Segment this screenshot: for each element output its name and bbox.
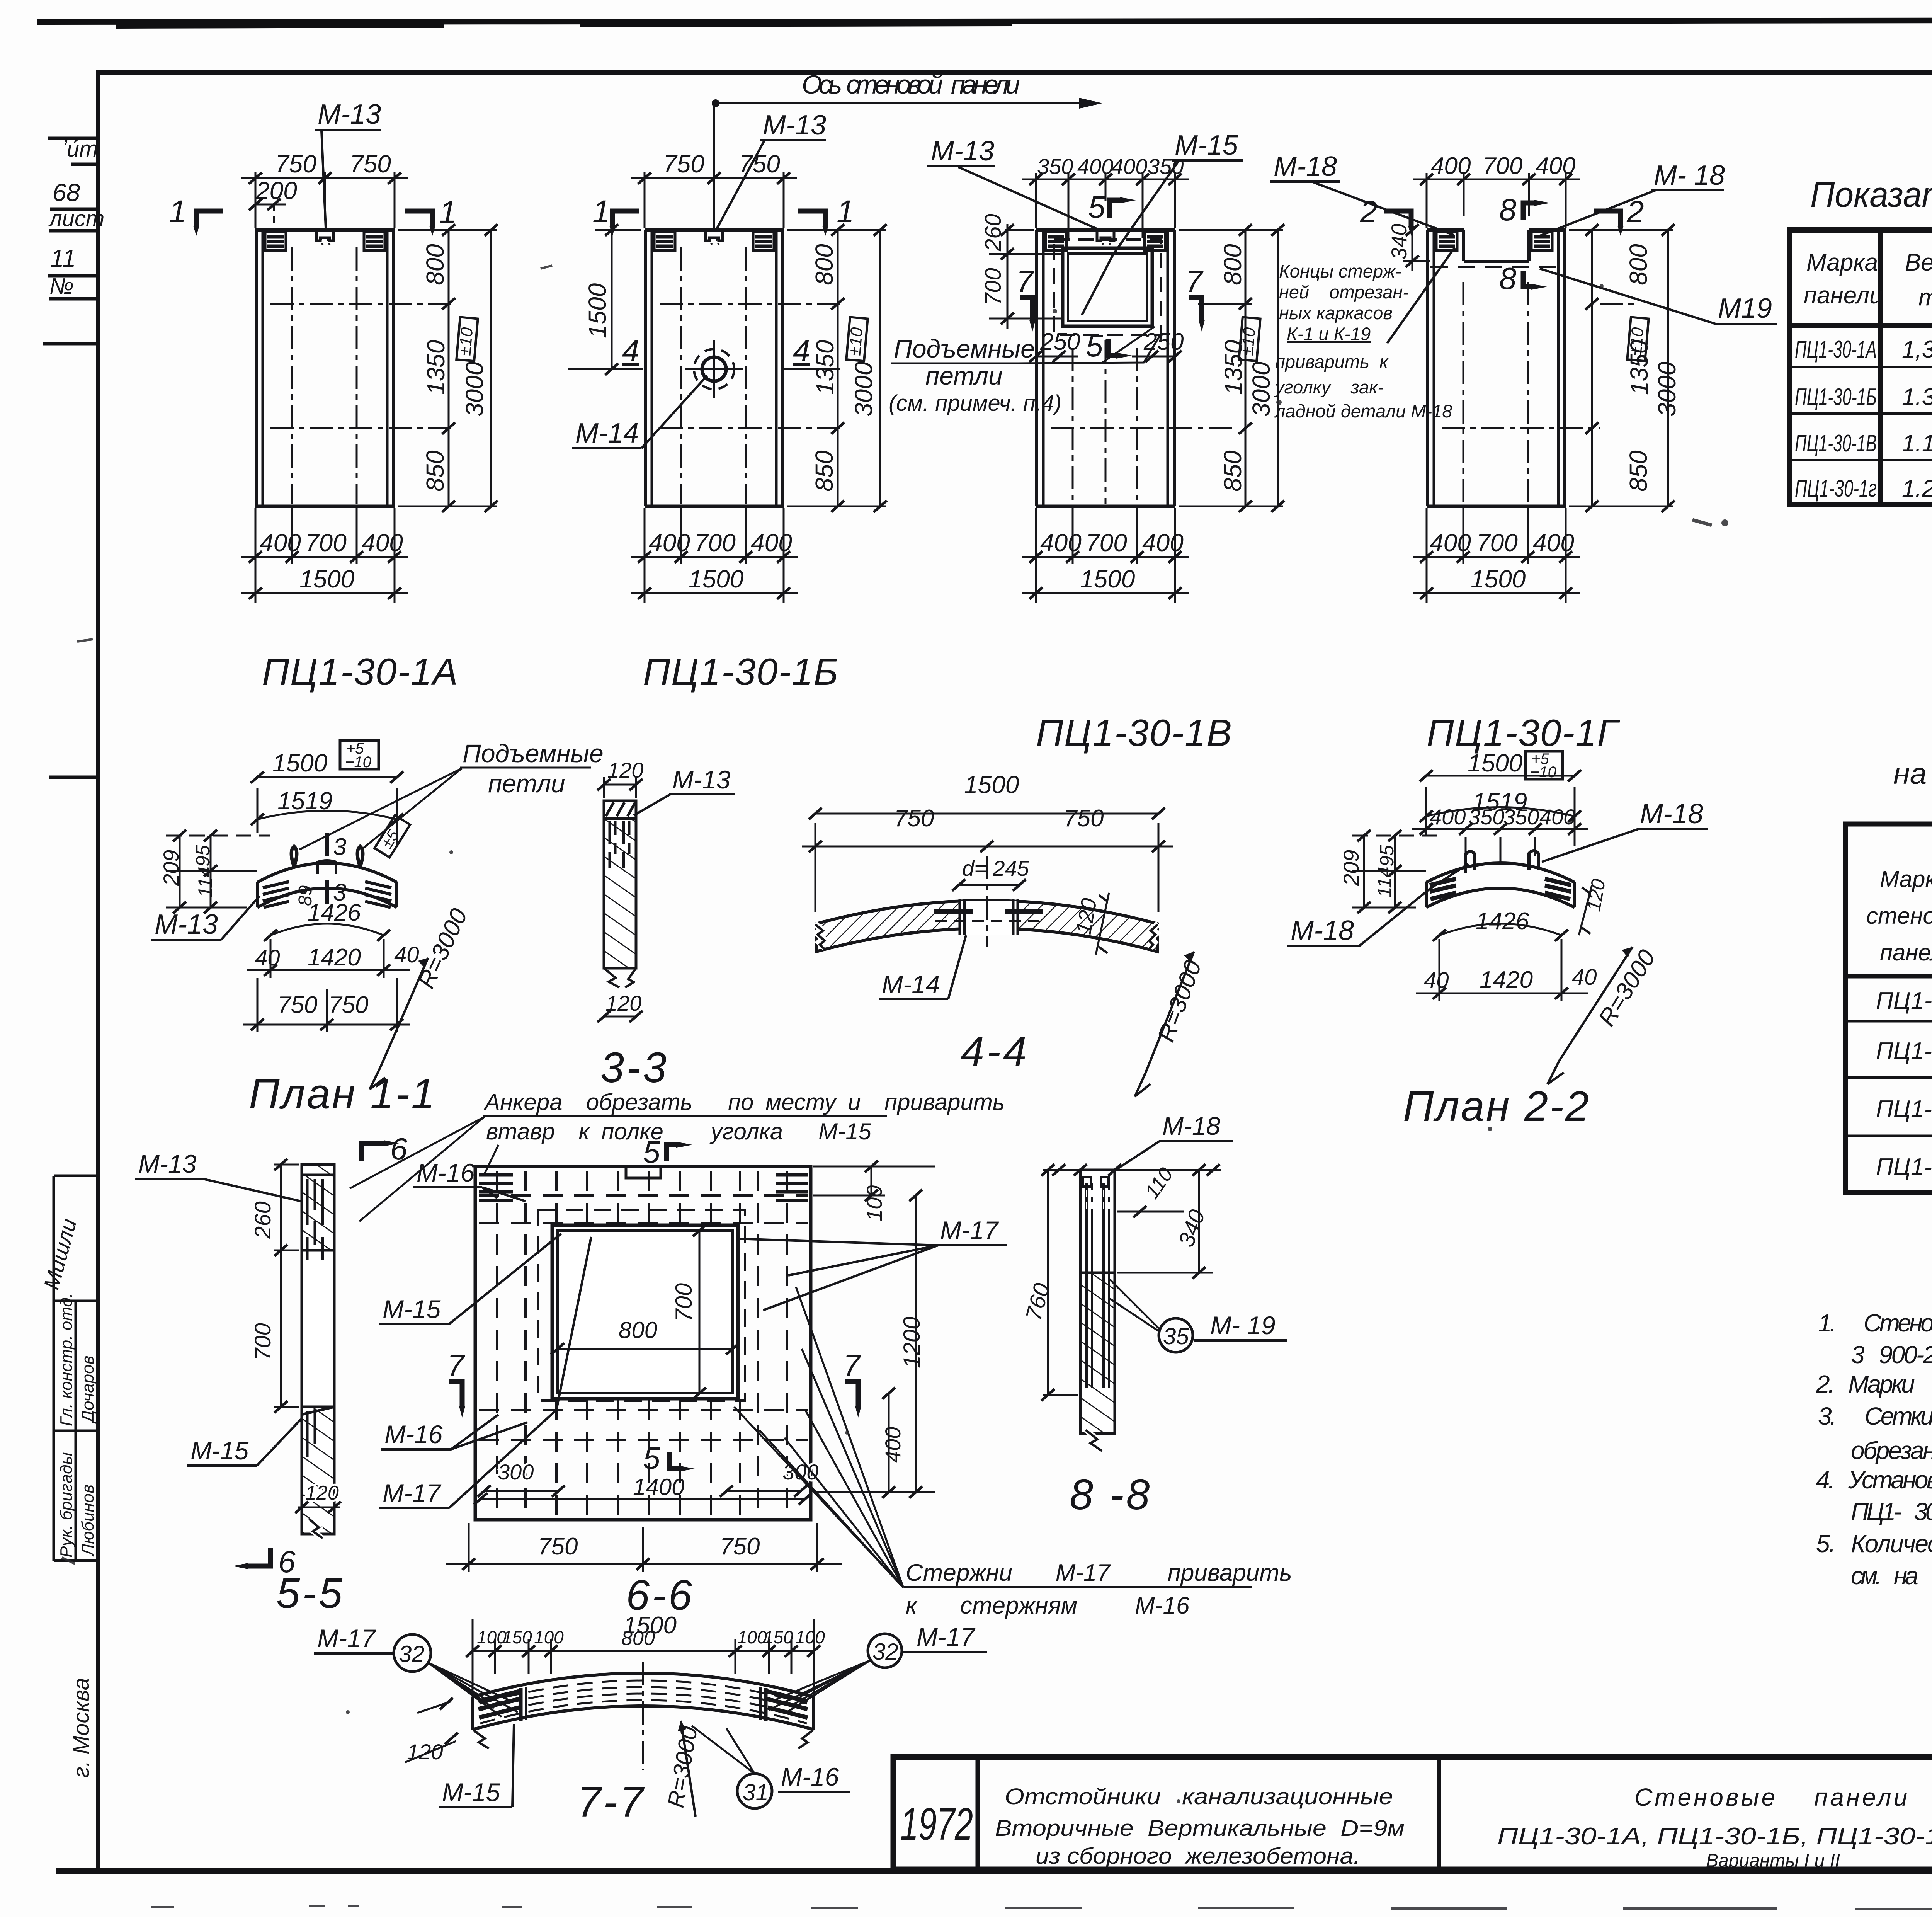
svg-text:750: 750 [1064,805,1104,832]
svg-text:400: 400 [881,1427,905,1463]
svg-text:250: 250 [1040,329,1080,355]
svg-text:209: 209 [159,850,183,886]
Plan 2-2 drawing [1287,749,1708,1130]
svg-text:М-18: М-18 [1640,798,1703,829]
svg-text:уголку зак-: уголку зак- [1274,377,1384,397]
svg-text:ПЦ1-30-1Б: ПЦ1-30-1Б [643,650,839,693]
svg-text:М-14: М-14 [882,970,940,999]
svg-text:700: 700 [250,1323,276,1360]
svg-text:32: 32 [872,1639,898,1665]
М-14 hole [702,357,726,381]
bottom dims [1022,508,1189,603]
svg-text:850: 850 [1219,450,1247,492]
svg-text:М-13: М-13 [155,909,218,940]
table 1: Показатели на одну панель [1789,175,1932,504]
svg-text:95: 95 [192,845,214,867]
svg-text:±10: ±10 [845,326,866,356]
svg-text:700: 700 [305,529,347,557]
R=3000 arrow [370,958,428,1089]
svg-text:120: 120 [305,1482,339,1504]
svg-text:М-16: М-16 [417,1158,475,1187]
svg-text:31: 31 [743,1779,769,1805]
svg-text:35: 35 [1163,1323,1189,1349]
svg-text:5-5: 5-5 [276,1570,345,1617]
svg-text:1350: 1350 [811,340,839,395]
1500 vertical dim [611,230,613,369]
svg-text:40: 40 [1572,965,1597,990]
svg-text:350: 350 [1468,805,1504,829]
svg-text:100: 100 [534,1627,564,1647]
svg-text:т: т [1918,284,1932,311]
svg-text:1972: 1972 [900,1799,973,1850]
dim 340 [1198,1170,1200,1273]
svg-text:М-15: М-15 [442,1778,500,1806]
dashed rebar verticals [497,1171,787,1517]
curved band [473,1673,814,1697]
svg-text:(см. примеч. п.4): (см. примеч. п.4) [889,391,1061,416]
svg-text:№: № [49,274,74,299]
svg-text:400: 400 [260,529,301,557]
svg-text:750: 750 [328,992,368,1018]
right dim chain [1569,230,1673,506]
svg-text:−10: −10 [345,754,371,771]
svg-text:750: 750 [894,805,934,832]
М-18 anchor combs at ends [1430,879,1571,899]
dim 1400 [481,1498,805,1500]
dims 1426 / 1420 / 40 [1439,924,1561,935]
svg-text:700: 700 [671,1283,697,1322]
svg-text:петли: петли [925,361,1003,390]
dims 260 / 700 [274,1165,299,1407]
svg-text:1420: 1420 [1480,967,1533,993]
svg-text:5. Количество стеновых пан: 5. Количество стеновых панелей, подлежащ… [1816,1530,1932,1558]
arc band [257,863,397,882]
svg-text:120: 120 [605,991,641,1015]
svg-text:−10: −10 [1530,764,1556,781]
svg-text:3000: 3000 [461,361,488,417]
rise dims [1352,836,1437,907]
svg-text:800: 800 [1624,244,1652,285]
svg-text:800: 800 [810,244,838,285]
dim 1420 + 40 [247,969,410,971]
lifting loops [291,846,297,867]
centre hole [960,901,1018,935]
bottom dims 400/700/400 and 1500 [241,508,408,603]
svg-text:400: 400 [751,529,792,557]
svg-text:750: 750 [720,1533,760,1560]
dim 400/700/400 top [1413,173,1580,228]
svg-text:3-3: 3-3 [600,1044,669,1091]
svg-text:1.25: 1.25 [1902,475,1932,502]
svg-text:6: 6 [390,1132,408,1166]
svg-text:ПЦ1-30-1Г: ПЦ1-30-1Г [1427,712,1621,754]
svg-text:Марка: Марка [1880,866,1932,892]
svg-text:700: 700 [1483,153,1522,179]
svg-text:1. Стеновые панели принят: 1. Стеновые панели приняты марки ПЦ1- 30… [1818,1309,1932,1337]
svg-text:±10: ±10 [455,326,476,356]
end plates [478,1691,808,1718]
svg-text:см. на листах АС -3, 4, 5.: см. на листах АС -3, 4, 5. [1851,1562,1932,1590]
svg-text:7-7: 7-7 [577,1778,646,1826]
center plate mark [318,860,336,874]
svg-text:панели: панели [1804,282,1883,309]
svg-text:К-1 и К-19: К-1 и К-19 [1287,323,1371,344]
svg-text:400: 400 [1430,529,1471,557]
note: Анкера обрезать [350,1089,1005,1221]
right dim chain 800/1350/850 [398,230,497,506]
note: Стержни М-17 приварить [734,1287,1292,1619]
svg-text:700: 700 [1086,529,1127,557]
svg-text:Отстойники канализационные: Отстойники канализационные [1005,1784,1393,1809]
svg-text:ПЦ1-30-1А, ПЦ1-30-1Б, ПЦ1-30-1: ПЦ1-30-1А, ПЦ1-30-1Б, ПЦ1-30-1В, ПЦ1-30-… [1497,1823,1932,1850]
right dim chain [1179,230,1283,506]
section mark 1 left [196,211,223,226]
svg-text:400: 400 [1142,529,1184,557]
tol box ±5 [374,815,410,857]
svg-text:4-4: 4-4 [961,1028,1029,1075]
svg-text:Подъемные: Подъемные [894,334,1035,363]
svg-text:750: 750 [277,992,317,1018]
svg-text:5: 5 [1086,329,1103,363]
svg-text:400: 400 [1431,153,1471,179]
svg-text:М19: М19 [1718,293,1772,324]
svg-text:М-16: М-16 [384,1420,443,1449]
svg-text:М-13: М-13 [138,1149,197,1178]
svg-text:1426: 1426 [308,899,361,926]
section 6-6 [379,1135,1007,1619]
svg-text:1500: 1500 [583,283,611,338]
svg-text:4. Установку верхних подъе: 4. Установку верхних подъемных петель в … [1816,1466,1932,1494]
svg-text:Дочаров: Дочаров [78,1355,97,1424]
svg-text:7: 7 [1185,264,1204,298]
scan bottom dashed edge [151,1906,1932,1909]
svg-text:М- 19: М- 19 [1210,1311,1276,1340]
svg-text:ных каркасов: ных каркасов [1279,303,1393,323]
left rise dims 95/114/209 [166,836,270,907]
svg-text:1: 1 [592,194,610,229]
svg-text:260: 260 [250,1201,276,1239]
dim 250 left/right of window [1036,356,1078,358]
top dims [473,1650,814,1652]
svg-text:М-15: М-15 [1175,130,1238,161]
left margin stamp lines [43,138,96,777]
svg-text:приварить к: приварить к [1275,351,1389,372]
svg-text:150: 150 [502,1627,532,1647]
svg-text:114: 114 [194,867,216,897]
svg-text:ладной детали М-18: ладной детали М-18 [1274,401,1452,421]
svg-text:340: 340 [1387,224,1411,260]
svg-text:1426: 1426 [1476,908,1529,935]
arc band [1426,863,1575,882]
svg-text:М- 18: М- 18 [1654,160,1725,191]
35 circle + М-19 [1159,1318,1193,1352]
window dims [558,1348,733,1350]
svg-text:750: 750 [538,1533,578,1560]
notes: Примечания [1816,1246,1932,1590]
table 3: Выборка стали [1845,720,1932,1193]
dim 750+750 top [241,172,408,228]
svg-text:400: 400 [1077,154,1113,179]
svg-text:1500: 1500 [964,771,1019,798]
svg-text:ПЦ1-30 -1А: ПЦ1-30 -1А [1876,987,1932,1014]
svg-text:3: 3 [333,834,346,860]
svg-text:8: 8 [1499,261,1517,296]
dim 1500 with tol box [257,776,397,778]
svg-text:Любинов: Любинов [78,1485,97,1557]
svg-text:Вторичные Вертикальные D=9м: Вторичные Вертикальные D=9м [995,1816,1405,1841]
svg-text:68: 68 [53,179,80,206]
section mark 2 left [1384,211,1411,226]
svg-text:Ось стеновой панели: Ось стеновой панели [802,70,1020,99]
svg-text:ПЦ1-30-1А: ПЦ1-30-1А [262,650,459,693]
dim 750+750 top [631,172,797,228]
svg-text:1500: 1500 [689,565,744,593]
dim 200 [255,204,286,206]
section 6 marks [361,1143,384,1161]
left vertical dims 260/700 [989,224,1063,329]
svg-text:d= 245: d= 245 [962,856,1029,880]
svg-text:ПЦ1-30-1Б: ПЦ1-30-1Б [1795,384,1877,410]
svg-text:300: 300 [498,1460,534,1484]
svg-text:Анкера обрезать по месту и: Анкера обрезать по месту и приварить [483,1089,1005,1115]
svg-text:Стержни М-17 приварить: Стержни М-17 приварить [906,1559,1292,1586]
R=3000 [1548,947,1633,1084]
svg-text:М-16: М-16 [781,1762,839,1791]
svg-text:М-15: М-15 [190,1436,249,1465]
svg-text:лист: лист [48,206,104,231]
frame bottom border [56,1868,1932,1874]
section mark 2 right [1594,211,1621,226]
svg-text:3000: 3000 [850,361,878,417]
svg-text:800: 800 [619,1317,657,1343]
svg-text:ней отрезан-: ней отрезан- [1279,282,1409,302]
dim 350/400/400/350 top [1022,173,1189,238]
svg-text:М-18: М-18 [1291,915,1354,946]
svg-text:План 2-2: План 2-2 [1403,1083,1590,1130]
svg-text:1500: 1500 [272,749,328,777]
svg-text:М-17: М-17 [940,1216,999,1245]
svg-text:7: 7 [447,1348,465,1382]
120 thickness [1579,885,1592,935]
svg-text:М-13: М-13 [672,765,731,794]
svg-text:250: 250 [1143,329,1184,355]
dims 300 bottom [484,1490,558,1492]
svg-text:850: 850 [421,450,449,492]
dim 1519 curved [257,811,397,820]
R=3000 [681,1721,696,1817]
section 4-4 [802,771,1207,1096]
svg-text:700: 700 [694,529,736,557]
svg-text:400: 400 [1040,529,1082,557]
panel ПЦ1-30-1А elevation [169,99,498,693]
svg-text:1420: 1420 [308,944,361,971]
section 5-5 strip [135,1132,408,1617]
bottom dims [1413,508,1580,603]
top dim [1043,1169,1221,1171]
svg-text:1500: 1500 [1468,749,1523,777]
svg-text:3 900-2 выпуск 3 с добав: 3 900-2 выпуск 3 с добавлением закладных… [1851,1341,1932,1369]
svg-text:750: 750 [350,150,391,178]
svg-text:750: 750 [275,150,316,178]
svg-text:800: 800 [421,244,449,285]
svg-text:1: 1 [837,194,854,229]
svg-text:260: 260 [981,214,1006,252]
svg-text:400: 400 [362,529,403,557]
svg-text:1,33: 1,33 [1902,336,1932,363]
svg-text:400: 400 [1111,154,1147,179]
svg-text:Рук. бригады: Рук. бригады [57,1452,76,1558]
section 7-7 [314,1612,987,1826]
svg-text:1519: 1519 [277,787,332,815]
dim 750/750 bottom [243,1024,410,1026]
svg-text:1.15: 1.15 [1902,430,1932,457]
svg-text:М-18: М-18 [1274,151,1337,182]
svg-text:±10: ±10 [1238,326,1259,356]
svg-text:400: 400 [1536,153,1575,179]
lifting lugs [1466,851,1475,873]
svg-text:350: 350 [1503,805,1539,829]
svg-text:40: 40 [255,945,280,970]
svg-text:к стержням М-16: к стержням М-16 [906,1592,1190,1619]
svg-text:втавр к полке уголка М-1: втавр к полке уголка М-15 [486,1119,871,1144]
svg-text:7: 7 [1016,264,1034,298]
svg-text:800: 800 [621,1627,655,1650]
dim 750/750 [446,1563,842,1565]
svg-text:1350: 1350 [422,340,450,395]
svg-text:М-13: М-13 [763,110,826,141]
svg-text:7: 7 [843,1348,861,1382]
svg-text:ПЦ1-30-1В: ПЦ1-30-1В [1795,430,1877,457]
svg-text:из сборного железобетона.: из сборного железобетона. [1036,1844,1360,1869]
section mark 1 right [405,211,432,226]
svg-text:100: 100 [862,1185,886,1221]
note text about К-1 [1274,261,1452,421]
svg-text:850: 850 [810,450,838,492]
svg-text:1200: 1200 [899,1317,925,1368]
32 circles with fans [394,1634,431,1672]
svg-text:обрезанных стержней привар: обрезанных стержней приварить к закладны… [1851,1437,1932,1464]
svg-text:100: 100 [795,1627,825,1647]
svg-text:100: 100 [737,1627,767,1647]
bottom dims [631,508,798,603]
section mark 1 left [612,211,639,226]
svg-text:32: 32 [399,1641,425,1667]
frame left border [96,70,100,1871]
svg-text:ПЦ1- 30-1В производить по: ПЦ1- 30-1В производить по данному чертеж… [1851,1498,1932,1525]
svg-text:М-13: М-13 [931,136,994,167]
end anchor combs [263,882,391,907]
svg-text:1500: 1500 [299,565,355,593]
right dim chain [787,230,886,506]
svg-text:700: 700 [1476,529,1518,557]
svg-text:1: 1 [169,194,187,229]
svg-text:120: 120 [607,758,643,782]
svg-text:г. Москва: г. Москва [69,1678,94,1778]
svg-text:40: 40 [394,942,419,967]
title block [893,1757,1932,1911]
panel ПЦ1-30-1Г elevation [1270,151,1777,754]
svg-text:4: 4 [793,334,810,368]
section 3-3 [597,758,735,1091]
svg-text:400: 400 [1539,805,1575,829]
svg-text:11: 11 [50,244,76,272]
svg-text:петли: петли [488,769,565,798]
dim 1500 [815,813,1158,815]
section 4 marks [587,368,643,370]
svg-text:ПЦ1-30-1А: ПЦ1-30-1А [1795,336,1877,363]
svg-text:Марка: Марка [1806,249,1878,276]
svg-text:8 -8: 8 -8 [1070,1471,1152,1519]
svg-text:2. Марки закладных элементов: 2. Марки закладных элементов см. листы А… [1816,1370,1932,1398]
section 8-8 [1021,1112,1287,1519]
svg-text:Стеновые панели: Стеновые панели [1634,1783,1910,1811]
section mark 1 right [798,211,825,226]
dim 340 [1412,228,1413,271]
dims right [871,1166,872,1195]
dim 750/750 [802,846,1173,848]
scan top edge band [37,17,1932,25]
svg-text:1500: 1500 [1471,565,1526,593]
svg-text:Гл. констр. отд.: Гл. констр. отд. [57,1293,76,1426]
svg-text:ПЦ1-30 -1В: ПЦ1-30 -1В [1876,1096,1932,1122]
120 thickness dim [1096,893,1109,955]
svg-text:5: 5 [1088,190,1105,224]
svg-text:ʼи́т: ʼи́т [62,136,98,162]
svg-text:ПЦ1-30-1В: ПЦ1-30-1В [1036,712,1233,754]
svg-text:700: 700 [981,268,1006,305]
svg-text:М-17: М-17 [317,1624,376,1653]
svg-text:1500: 1500 [1080,565,1135,593]
svg-text:Вес: Вес [1905,249,1932,276]
dim 110 [1117,1211,1184,1213]
svg-text:150: 150 [764,1627,793,1647]
svg-text:ПЦ1-30-1г: ПЦ1-30-1г [1795,475,1877,502]
31 circle + М-16 [737,1774,772,1808]
dim 120 top [604,784,636,786]
svg-text:ПЦ1-30 -1Б: ПЦ1-30 -1Б [1876,1038,1932,1064]
svg-text:3000: 3000 [1247,361,1275,417]
svg-text:5: 5 [643,1441,660,1475]
svg-text:М-18: М-18 [1162,1112,1221,1140]
svg-text:Варианты I и II: Варианты I и II [1706,1851,1840,1871]
svg-text:750: 750 [739,150,780,178]
svg-text:850: 850 [1624,450,1652,492]
R=3000 [1135,952,1194,1096]
svg-text:400: 400 [1430,805,1466,829]
Plan 1-1 drawing [151,739,604,1118]
svg-text:200: 200 [255,177,297,204]
frame top border [97,70,1932,75]
dim 400/350/350/400 [1412,828,1588,830]
dim 760 [1047,1170,1049,1395]
panel ПЦ1-30-1В elevation [889,130,1284,754]
svg-text:Показатели на одну панель: Показатели на одну панель [1810,175,1932,215]
svg-text:1.33: 1.33 [1902,384,1932,410]
svg-text:План 1-1: План 1-1 [249,1070,436,1118]
svg-text:400: 400 [1533,529,1574,557]
svg-text:±10: ±10 [1626,326,1647,356]
panel ПЦ1-30-1Б elevation [568,70,1102,693]
dim 1426 curved [270,924,384,935]
svg-text:114: 114 [1374,867,1395,897]
svg-text:3. Сетки в местах отверст: 3. Сетки в местах отверстий вырезать по … [1818,1402,1932,1430]
svg-text:ПЦ1-30 -1Г: ПЦ1-30 -1Г [1876,1154,1932,1180]
curved band with hatch [816,901,1157,952]
svg-text:40: 40 [1424,968,1449,993]
svg-text:3000: 3000 [1653,361,1681,417]
svg-text:4: 4 [622,334,639,368]
svg-text:М-17: М-17 [383,1479,442,1507]
